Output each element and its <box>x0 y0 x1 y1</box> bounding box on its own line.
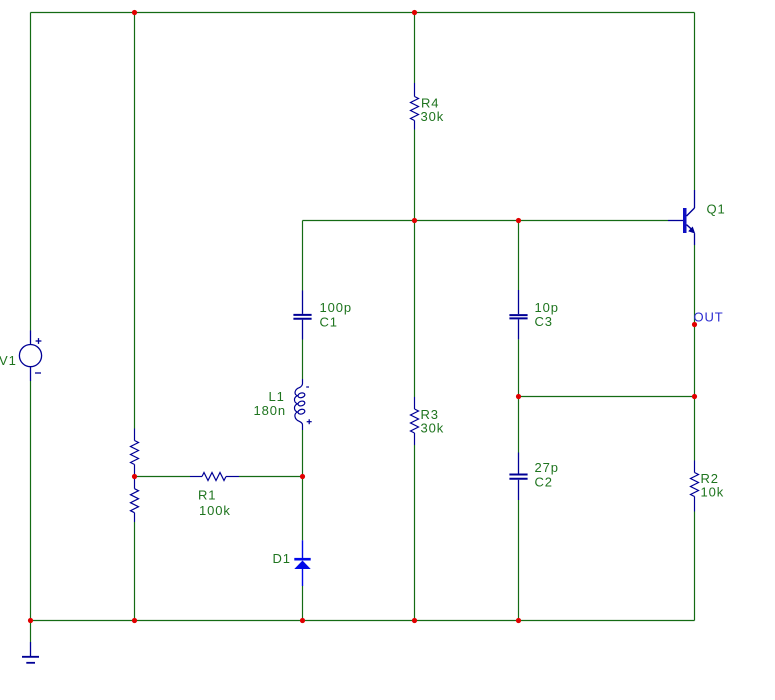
capacitor C2 <box>509 453 527 501</box>
wire right collector riser <box>694 13 696 191</box>
wire mid bus <box>303 220 669 222</box>
wire C1 to L1 <box>302 340 304 380</box>
wire C3 to node <box>518 339 520 396</box>
junction dot 11 <box>132 618 137 623</box>
junction dot 14 <box>516 618 521 623</box>
svg-text:10k: 10k <box>701 484 725 499</box>
wire R1 row right <box>239 476 303 478</box>
svg-text:OUT: OUT <box>694 309 724 324</box>
voltage source V1 <box>19 331 41 382</box>
transistor Q1 <box>668 190 695 245</box>
resistor R4 <box>411 83 419 130</box>
svg-text:180n: 180n <box>254 403 287 418</box>
wire middle-left column <box>134 13 136 429</box>
resistor lower (unlabeled) <box>131 477 139 523</box>
wire top rail <box>31 12 695 14</box>
wire C1 branch <box>302 221 304 291</box>
svg-text:C3: C3 <box>535 314 553 329</box>
resistor R3 <box>411 397 419 445</box>
resistor R2 <box>691 461 699 512</box>
diode D1 <box>294 540 310 586</box>
resistor R1 <box>190 473 239 481</box>
svg-text:10p: 10p <box>535 300 559 315</box>
junction dot 13 <box>412 618 417 623</box>
junction dot 10 <box>28 618 33 623</box>
svg-text:100k: 100k <box>199 503 231 518</box>
wire left lower <box>30 381 32 621</box>
wire D1 to bottom <box>302 586 304 621</box>
svg-text:L1: L1 <box>269 389 285 404</box>
wire R4 to bus <box>414 130 416 221</box>
wire bottom rail <box>31 620 695 622</box>
junction dot 5 <box>692 322 697 327</box>
junction dot 9 <box>300 474 305 479</box>
junction dot 6 <box>516 394 521 399</box>
svg-text:27p: 27p <box>535 460 559 475</box>
junction dot 7 <box>692 394 697 399</box>
svg-text:D1: D1 <box>273 551 291 566</box>
junction dot 4 <box>516 218 521 223</box>
wire bus down R3 <box>414 221 416 398</box>
svg-text:V1: V1 <box>0 353 17 368</box>
wire R4 branch top <box>414 13 416 84</box>
wire OUT to R2 <box>694 397 696 461</box>
inductor L1 <box>294 379 311 430</box>
wire R3 to bottom <box>414 445 416 621</box>
svg-text:R1: R1 <box>198 487 216 502</box>
junction dot 1 <box>132 10 137 15</box>
svg-text:Q1: Q1 <box>707 201 726 216</box>
wire middle-left lower <box>134 522 136 621</box>
wire R1 row left <box>135 476 191 478</box>
wire L1 to R1 node <box>302 430 304 477</box>
junction dot 3 <box>412 218 417 223</box>
wire R2 to bottom <box>694 512 696 621</box>
wire C2 to bottom <box>518 500 520 621</box>
junction dot 8 <box>132 474 137 479</box>
svg-text:30k: 30k <box>421 109 445 124</box>
resistor upper (unlabeled) <box>131 429 139 477</box>
capacitor C3 <box>509 290 527 339</box>
svg-text:100p: 100p <box>320 300 353 315</box>
wire emitter to OUT <box>694 245 696 397</box>
junction dot 2 <box>412 10 417 15</box>
wire ground stem <box>30 621 32 643</box>
svg-text:C1: C1 <box>320 315 338 330</box>
wire node to D1 <box>302 477 304 541</box>
capacitor C1 <box>293 291 311 340</box>
ground <box>22 642 39 663</box>
wire left column <box>30 13 32 331</box>
wire node to C2 <box>518 397 520 453</box>
wire feedback horizontal <box>519 396 695 398</box>
wire C3 branch <box>518 221 520 291</box>
svg-text:30k: 30k <box>421 420 445 435</box>
junction dot 12 <box>300 618 305 623</box>
svg-text:C2: C2 <box>535 475 553 490</box>
